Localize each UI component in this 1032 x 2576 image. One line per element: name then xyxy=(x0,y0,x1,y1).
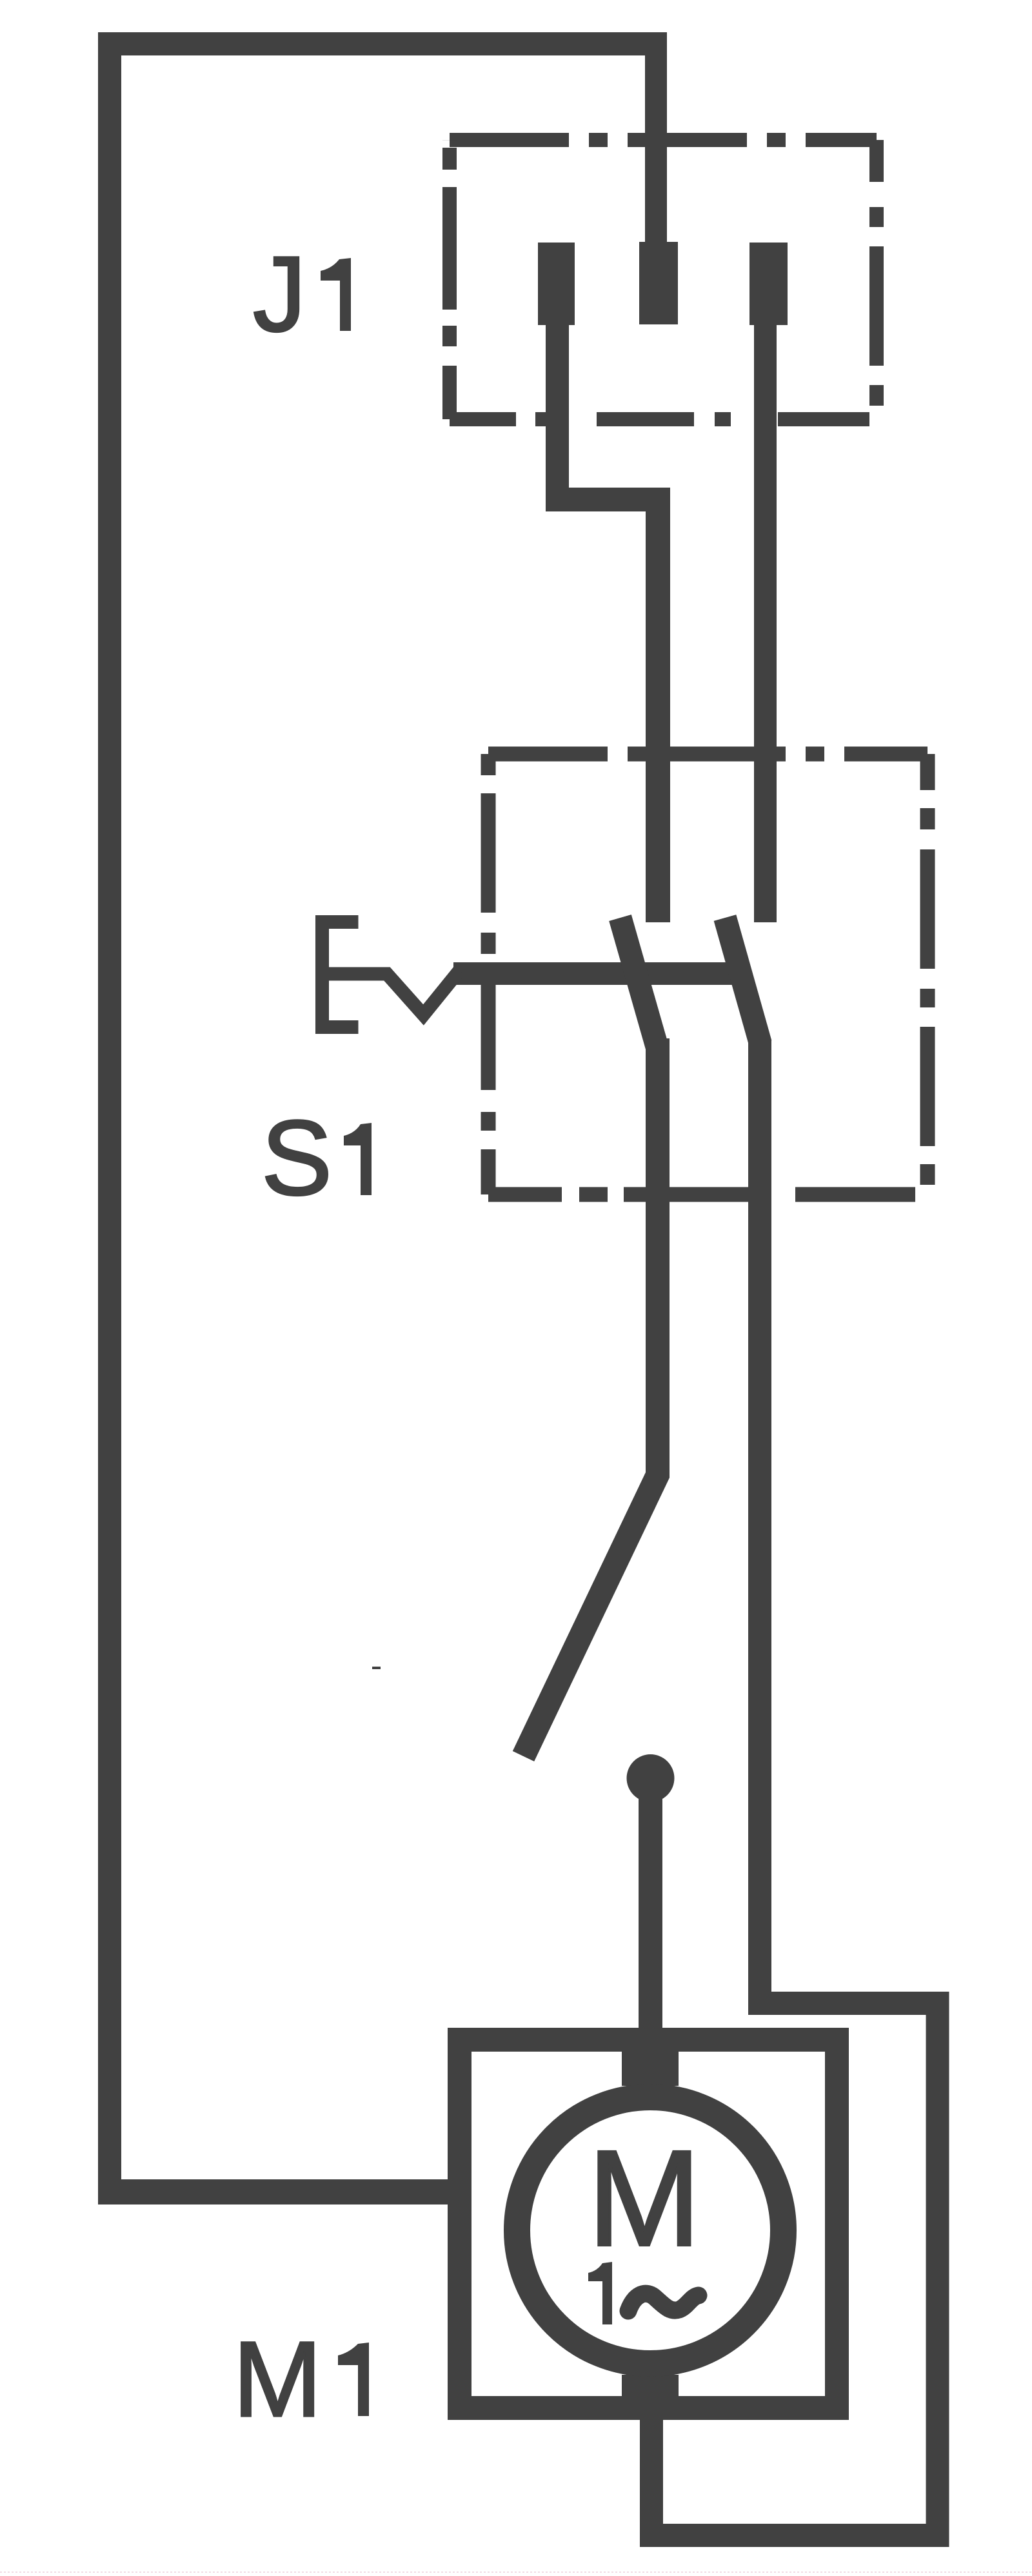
wire top rail xyxy=(98,32,667,55)
wire J1 pin3 down to S1 xyxy=(754,325,777,922)
motor rating tilde xyxy=(628,2294,699,2311)
wire center vertical to S1 xyxy=(646,488,670,922)
motor digit 1 xyxy=(588,2262,612,2324)
E actuator bracket xyxy=(322,922,359,1027)
connector J1 dash-dot box left xyxy=(442,140,457,419)
switch S1 dash-dot box bottom xyxy=(488,1187,928,1202)
wire below contact dot xyxy=(639,1778,662,2054)
wire motor bottom, bottom rail, right rail up to S1 pole2 xyxy=(651,1040,938,2535)
actuator bar S1 xyxy=(453,962,745,985)
faint scanner line bottom xyxy=(0,2571,1032,2573)
wire J1 pin1 down xyxy=(546,325,569,511)
connector J1 pin 3 xyxy=(749,243,788,325)
switch S1 dash-dot box left xyxy=(481,754,496,1194)
connector J1 dash-dot box bottom xyxy=(450,412,877,426)
switch S1 dash-dot box top xyxy=(488,747,928,762)
motor terminal stub top xyxy=(622,2050,679,2086)
svg-text:M: M xyxy=(233,2320,322,2439)
S1 pole 1 blade xyxy=(620,918,659,1050)
switch S1 dash-dot box right xyxy=(920,754,935,1194)
motor M1 circle xyxy=(517,2097,784,2364)
connector J1 dash-dot box top xyxy=(450,133,877,147)
wire top rail to J1 middle pin xyxy=(645,55,667,242)
connector J1 pin 1 xyxy=(538,243,575,325)
motor M1 box xyxy=(460,2040,837,2408)
scan artifact dash xyxy=(372,1667,381,1669)
wire bottom-left horizontal xyxy=(98,2179,471,2204)
label S1 digit 1 xyxy=(344,1123,372,1195)
motor terminal stub bottom xyxy=(622,2375,679,2397)
label J1 digit 1 xyxy=(321,258,351,331)
svg-text:S: S xyxy=(261,1098,332,1217)
contact dot xyxy=(627,1754,675,1802)
connector J1 pin 2 xyxy=(639,242,678,324)
label M1 digit 1 xyxy=(338,2343,369,2416)
S1 pole 2 blade xyxy=(725,918,760,1044)
wire S1 pole1 down and main switch blade xyxy=(524,1038,658,1756)
connector J1 dash-dot box right xyxy=(869,140,884,419)
wire left rail xyxy=(98,32,121,2204)
svg-text:J: J xyxy=(253,235,306,354)
wire elbow horizontal xyxy=(546,488,670,511)
svg-text:M: M xyxy=(588,2122,701,2274)
E actuator middle arm and V link xyxy=(328,971,459,1015)
